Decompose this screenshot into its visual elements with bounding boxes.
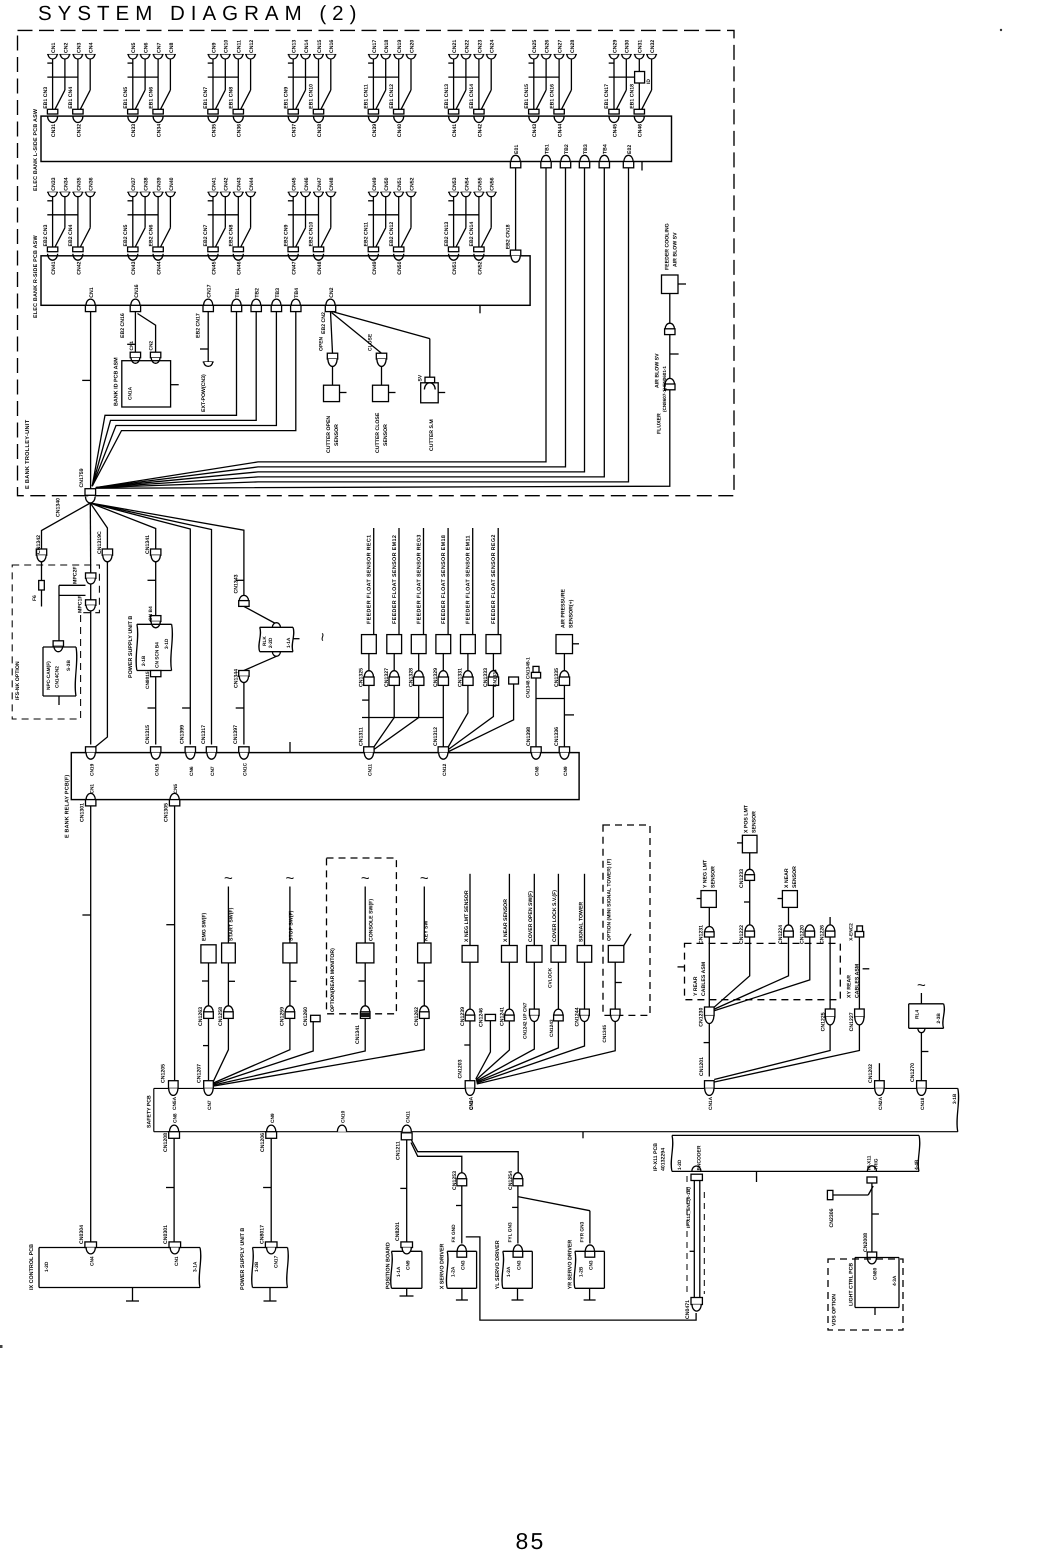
svg-text:FEEDER COOLING: FEEDER COOLING (665, 223, 671, 270)
svg-text:LIGHT CTRL PCB: LIGHT CTRL PCB (848, 1263, 854, 1306)
svg-text:CN29: CN29 (612, 40, 618, 53)
svg-text:CN8201: CN8201 (395, 1222, 401, 1241)
svg-text:EB1 CN8: EB1 CN8 (229, 87, 235, 109)
svg-text:1-2B: 1-2B (254, 1261, 260, 1272)
svg-text:CN1328: CN1328 (409, 668, 415, 687)
svg-text:CN19: CN19 (397, 40, 403, 53)
svg-text:CN12: CN12 (442, 763, 448, 776)
svg-text:CN1341: CN1341 (145, 535, 151, 554)
svg-text:CN18: CN18 (384, 40, 390, 53)
svg-text:CN34: CN34 (63, 177, 69, 190)
svg-text:CN8: CN8 (173, 1113, 179, 1123)
svg-text:EB1 CN14: EB1 CN14 (469, 84, 475, 109)
svg-text:EB2 CN11: EB2 CN11 (364, 222, 370, 247)
svg-text:TB4: TB4 (603, 144, 609, 154)
svg-text:START SW(F): START SW(F) (229, 907, 235, 941)
svg-text:CN1220: CN1220 (799, 925, 805, 944)
svg-text:CN1311: CN1311 (359, 727, 365, 746)
svg-text:CN1231: CN1231 (699, 925, 705, 944)
svg-text:SYSTEM DIAGRAM (2): SYSTEM DIAGRAM (2) (38, 2, 362, 25)
svg-text:EB1 CN17: EB1 CN17 (604, 84, 610, 109)
svg-text:1-2D: 1-2D (677, 1159, 683, 1170)
svg-text:RL4: RL4 (915, 1010, 921, 1019)
svg-text:CN56: CN56 (490, 177, 496, 190)
svg-text:CN52: CN52 (409, 177, 415, 190)
svg-text:CN54: CN54 (464, 177, 470, 190)
svg-text:CN33: CN33 (131, 124, 137, 137)
svg-text:MPC2F: MPC2F (73, 566, 79, 584)
svg-text:CN20: CN20 (409, 40, 415, 53)
svg-text:CN1201: CN1201 (699, 1057, 705, 1076)
svg-text:CN49: CN49 (372, 177, 378, 190)
svg-text:CN46: CN46 (638, 124, 644, 137)
svg-text:EB1 CN18: EB1 CN18 (630, 84, 636, 109)
svg-text:XY REAR: XY REAR (847, 975, 853, 998)
svg-text:TB1: TB1 (544, 144, 550, 154)
svg-text:CN43: CN43 (131, 261, 137, 274)
svg-text:4-3A: 4-3A (892, 1275, 898, 1286)
svg-text:CN1241: CN1241 (499, 1007, 505, 1026)
svg-text:~: ~ (315, 632, 332, 641)
svg-text:CN1327: CN1327 (384, 668, 390, 687)
svg-text:SENSOR(+): SENSOR(+) (569, 599, 575, 628)
svg-text:CN43: CN43 (532, 124, 538, 137)
svg-text:CN1305: CN1305 (164, 803, 170, 822)
svg-text:EB1 CN15: EB1 CN15 (524, 84, 530, 109)
svg-text:NPC-CAM(F): NPC-CAM(F) (46, 661, 52, 690)
svg-text:CN1262: CN1262 (414, 1007, 420, 1026)
svg-text:CN3: CN3 (460, 1260, 466, 1270)
svg-text:CN11: CN11 (368, 764, 374, 776)
svg-text:SENSOR: SENSOR (711, 866, 717, 888)
svg-text:ON B4: ON B4 (148, 606, 154, 621)
svg-text:CN47: CN47 (292, 261, 298, 274)
svg-text:EB1 CN10: EB1 CN10 (309, 84, 315, 109)
svg-text:CN1397: CN1397 (233, 725, 239, 744)
svg-text:FEEDER FLOAT SENSOR EM18: FEEDER FLOAT SENSOR EM18 (441, 535, 447, 624)
svg-text:CN1208: CN1208 (163, 1133, 169, 1152)
svg-text:CN42: CN42 (76, 261, 82, 274)
svg-text:FEEDER FLOAT SENSOR REC1: FEEDER FLOAT SENSOR REC1 (367, 535, 373, 624)
svg-text:SENSOR: SENSOR (383, 424, 389, 446)
svg-text:1-1A: 1-1A (286, 637, 292, 648)
svg-text:POWER SUPPLY UNIT B: POWER SUPPLY UNIT B (240, 1228, 246, 1290)
svg-text:KEY SW: KEY SW (423, 921, 429, 941)
svg-text:SV: SV (418, 374, 424, 381)
svg-text:CN1239: CN1239 (460, 1007, 466, 1026)
svg-text:CABLES ASM: CABLES ASM (855, 964, 861, 998)
svg-text:CN52: CN52 (477, 261, 483, 274)
svg-text:EB1 CN11: EB1 CN11 (364, 84, 370, 109)
svg-text:CN17: CN17 (372, 40, 378, 53)
svg-text:CN1C: CN1C (243, 762, 249, 776)
svg-text:4-4B: 4-4B (914, 1159, 920, 1170)
svg-text:CN1203: CN1203 (458, 1059, 464, 1078)
svg-text:EB2 CN8: EB2 CN8 (229, 224, 235, 246)
svg-text:CN11: CN11 (405, 1111, 411, 1123)
svg-text:CN1253: CN1253 (452, 1171, 458, 1190)
svg-text:CN1: CN1 (89, 784, 95, 794)
svg-text:2-3B: 2-3B (936, 1013, 942, 1024)
svg-text:CN35: CN35 (211, 124, 217, 137)
svg-text:CN1222: CN1222 (739, 925, 745, 944)
svg-text:CN1246: CN1246 (478, 1008, 484, 1027)
svg-text:CN15: CN15 (317, 40, 323, 53)
svg-text:CN0304: CN0304 (79, 1225, 85, 1244)
svg-text:CN1: CN1 (174, 1256, 180, 1266)
svg-text:EB1 CN6: EB1 CN6 (148, 87, 154, 109)
svg-text:EB1 CN13: EB1 CN13 (444, 84, 450, 109)
svg-text:SENSOR: SENSOR (334, 424, 340, 446)
svg-text:CN1312: CN1312 (433, 727, 439, 746)
svg-text:~: ~ (361, 870, 370, 887)
svg-text:CN1340: CN1340 (56, 498, 62, 517)
svg-text:CN4: CN4 (89, 43, 95, 53)
svg-text:EB2 CN5: EB2 CN5 (123, 224, 129, 246)
svg-text:VDS OPTION: VDS OPTION (832, 1294, 838, 1326)
svg-text:CN8017: CN8017 (260, 1225, 266, 1244)
svg-text:YL SERVO DRIVER: YL SERVO DRIVER (495, 1240, 501, 1289)
svg-text:CN31: CN31 (51, 124, 57, 137)
svg-text:1-2D: 1-2D (44, 1261, 50, 1272)
svg-text:CN33: CN33 (51, 177, 57, 190)
svg-text:1-1A: 1-1A (396, 1266, 402, 1277)
svg-text:CN1334: CN1334 (492, 669, 498, 687)
svg-text:CN1211: CN1211 (396, 1141, 402, 1160)
svg-text:CN1336: CN1336 (554, 727, 560, 746)
svg-text:Y REAR: Y REAR (693, 976, 699, 996)
svg-text:CN32: CN32 (76, 124, 82, 137)
svg-text:CN39: CN39 (372, 124, 378, 137)
svg-text:IP-X11_ENC(0-1B): IP-X11_ENC(0-1B) (686, 1187, 692, 1228)
svg-text:COVER OPEN SW(F): COVER OPEN SW(F) (528, 891, 534, 942)
svg-text:CN25: CN25 (532, 40, 538, 53)
svg-text:CN1263: CN1263 (198, 1007, 204, 1026)
svg-text:POWER SUPPLY UNIT B: POWER SUPPLY UNIT B (128, 616, 134, 678)
svg-text:CN14CN2: CN14CN2 (55, 666, 61, 688)
svg-text:CN23: CN23 (477, 40, 483, 53)
svg-text:IFS-NK OPTION: IFS-NK OPTION (15, 661, 21, 700)
svg-text:CN1227: CN1227 (849, 1012, 855, 1031)
svg-text:CN2: CN2 (329, 287, 335, 297)
svg-text:CN45: CN45 (292, 177, 298, 190)
svg-text:CONSOLE SW(F): CONSOLE SW(F) (369, 899, 375, 941)
svg-text:EB1 CN12: EB1 CN12 (389, 84, 395, 109)
svg-text:YR SERVO DRIVER: YR SERVO DRIVER (567, 1240, 573, 1290)
svg-text:CN1260: CN1260 (303, 1007, 309, 1026)
svg-text:CN3: CN3 (76, 43, 82, 53)
svg-text:TB2: TB2 (255, 288, 261, 298)
svg-text:IX CONTROL PCB: IX CONTROL PCB (29, 1244, 35, 1290)
svg-text:EB2 CN18: EB2 CN18 (506, 224, 512, 249)
svg-text:EB2 CN6: EB2 CN6 (148, 224, 154, 246)
svg-text:CN9: CN9 (270, 1113, 276, 1123)
svg-text:CN36: CN36 (237, 124, 243, 137)
svg-text:CN48: CN48 (329, 177, 335, 190)
svg-text:TB1: TB1 (235, 288, 241, 298)
svg-text:3-1D: 3-1D (164, 638, 170, 649)
svg-text:FYL GN3: FYL GN3 (507, 1222, 513, 1243)
svg-text:EB1 CN3: EB1 CN3 (43, 87, 49, 109)
svg-text:CN18: CN18 (920, 1097, 926, 1110)
svg-text:CN1243: CN1243 (549, 1019, 555, 1037)
svg-text:TB3: TB3 (275, 288, 281, 298)
svg-text:CN30: CN30 (625, 40, 631, 53)
svg-text:CN45: CN45 (211, 261, 217, 274)
svg-text:FEEDER FLOAT SENSOR EM12: FEEDER FLOAT SENSOR EM12 (392, 535, 398, 624)
svg-text:CN1331: CN1331 (458, 668, 464, 687)
svg-text:CN32: CN32 (650, 40, 656, 53)
svg-text:AIR BLOW SV: AIR BLOW SV (655, 353, 661, 388)
svg-text:CN5: CN5 (131, 43, 137, 53)
svg-text:CN17: CN17 (207, 284, 213, 297)
svg-text:CN1202: CN1202 (868, 1064, 874, 1083)
svg-text:CVLOCK: CVLOCK (548, 967, 554, 988)
svg-text:CN34: CN34 (157, 124, 163, 137)
svg-text:CUTTER OPEN: CUTTER OPEN (326, 416, 332, 453)
svg-text:CABLES ASM: CABLES ASM (701, 962, 707, 996)
svg-text:CN2: CN2 (149, 341, 155, 351)
svg-text:CN51: CN51 (397, 177, 403, 190)
svg-text:CN7: CN7 (207, 1100, 213, 1110)
svg-text:CN53: CN53 (452, 177, 458, 190)
svg-text:CN9: CN9 (406, 1260, 412, 1270)
svg-text:CN7: CN7 (210, 766, 216, 776)
svg-text:EB2 CN9: EB2 CN9 (283, 224, 289, 246)
svg-text:CN1341: CN1341 (355, 1025, 361, 1044)
svg-text:CN2A: CN2A (878, 1096, 884, 1110)
svg-text:CN41: CN41 (452, 124, 458, 137)
svg-text:CN3A: CN3A (469, 1096, 475, 1110)
svg-text:CN41: CN41 (51, 261, 57, 274)
svg-text:CN31: CN31 (638, 40, 644, 53)
svg-text:EB2 CN7: EB2 CN7 (203, 224, 209, 246)
svg-text:1-2B: 1-2B (578, 1266, 584, 1277)
svg-text:CN13: CN13 (292, 40, 298, 53)
svg-text:TB3: TB3 (583, 144, 589, 154)
svg-text:CN10: CN10 (224, 40, 230, 53)
svg-text:CN1333: CN1333 (483, 668, 489, 687)
svg-text:EB1 CN7: EB1 CN7 (203, 87, 209, 109)
svg-text:ELEC BANK L-SIDE PCB ASW: ELEC BANK L-SIDE PCB ASW (33, 108, 39, 191)
svg-text:CN55: CN55 (477, 177, 483, 190)
svg-text:CUTTER CLOSE: CUTTER CLOSE (375, 412, 381, 453)
svg-text:SENSOR: SENSOR (752, 811, 758, 833)
svg-text:EB2 CN10: EB2 CN10 (309, 222, 315, 247)
svg-text:CN1224: CN1224 (778, 925, 784, 944)
svg-text:2-1B: 2-1B (141, 655, 147, 666)
svg-text:CN1329: CN1329 (433, 668, 439, 687)
svg-text:CN44: CN44 (249, 177, 255, 190)
svg-text:FEEDER FLOAT SENSOR REG2: FEEDER FLOAT SENSOR REG2 (491, 534, 497, 624)
svg-text:3-1B: 3-1B (952, 1093, 958, 1104)
svg-text:IP-X11 PCB: IP-X11 PCB (653, 1143, 659, 1171)
svg-text:~: ~ (917, 977, 926, 994)
svg-text:CN80: CN80 (873, 1267, 879, 1280)
svg-text:Y NEG LMT: Y NEG LMT (703, 859, 709, 888)
svg-text:OPTION(REAR MONITOR): OPTION(REAR MONITOR) (330, 948, 336, 1012)
svg-text:MPC1F: MPC1F (78, 595, 84, 613)
svg-text:CN1399: CN1399 (180, 725, 186, 744)
svg-text:EB1 CN9: EB1 CN9 (283, 87, 289, 109)
svg-text:CN1: CN1 (51, 43, 57, 53)
svg-text:CN1244: CN1244 (575, 1007, 581, 1026)
svg-text:CN SCN B4: CN SCN B4 (155, 642, 161, 668)
svg-text:85: 85 (516, 1528, 546, 1554)
svg-text:ELEC BANK R-SIDE PCB ASW: ELEC BANK R-SIDE PCB ASW (33, 235, 39, 318)
svg-text:CLOSE: CLOSE (368, 333, 374, 351)
svg-text:CN4: CN4 (90, 1256, 96, 1266)
svg-text:FYR GN3: FYR GN3 (579, 1221, 585, 1242)
svg-text:BANK ID PCB ASM: BANK ID PCB ASM (114, 357, 120, 406)
svg-text:CN1301: CN1301 (80, 803, 86, 822)
svg-text:S-3B: S-3B (66, 660, 72, 671)
svg-text:40132294: 40132294 (661, 1148, 667, 1171)
svg-text:2-2D: 2-2D (268, 637, 274, 648)
svg-text:FX GND: FX GND (451, 1224, 457, 1243)
svg-text:EB2 CN13: EB2 CN13 (444, 222, 450, 247)
svg-text:CN2008: CN2008 (863, 1233, 869, 1252)
svg-text:CN24: CN24 (490, 40, 496, 53)
svg-text:EB1 CN4: EB1 CN4 (68, 87, 74, 109)
svg-text:CN1A: CN1A (708, 1096, 714, 1110)
svg-text:CUTTER S.M: CUTTER S.M (429, 419, 435, 451)
svg-text:FEEDER FLOAT SENSOR REG3: FEEDER FLOAT SENSOR REG3 (417, 534, 423, 624)
svg-text:CN3: CN3 (517, 1260, 523, 1270)
svg-text:CN49: CN49 (372, 261, 378, 274)
svg-text:EB1 CN5: EB1 CN5 (123, 87, 129, 109)
svg-text:CN48: CN48 (317, 261, 323, 274)
svg-text:E BANK RELAY PCB(F): E BANK RELAY PCB(F) (65, 775, 71, 838)
svg-text:CN38: CN38 (144, 177, 150, 190)
svg-text:EB2 CN17: EB2 CN17 (196, 313, 202, 338)
svg-text:CN15: CN15 (154, 763, 160, 776)
svg-text:CN1226: CN1226 (820, 925, 826, 944)
svg-text:~: ~ (286, 870, 295, 887)
svg-text:CN16: CN16 (329, 40, 335, 53)
svg-text:CN39: CN39 (157, 177, 163, 190)
svg-text:FEEDER FLOAT SENSOR EM11: FEEDER FLOAT SENSOR EM11 (466, 535, 472, 624)
svg-text:POSITION BOARD: POSITION BOARD (386, 1242, 392, 1289)
svg-text:X POS LMT: X POS LMT (744, 804, 750, 833)
svg-text:CN9: CN9 (211, 43, 217, 53)
svg-text:F6: F6 (32, 595, 38, 601)
svg-text:1-2A: 1-2A (506, 1266, 512, 1277)
svg-text:EXT-POW(CN3): EXT-POW(CN3) (201, 374, 207, 412)
svg-text:EMG SW(F): EMG SW(F) (202, 912, 208, 941)
svg-text:CN5A: CN5A (172, 1096, 178, 1110)
svg-text:CN21: CN21 (452, 40, 458, 53)
svg-text:AIR PRESSURE: AIR PRESSURE (561, 589, 567, 628)
svg-text:EB2 CN16: EB2 CN16 (120, 313, 126, 338)
svg-text:CN1233: CN1233 (739, 869, 745, 888)
svg-text:X-ENC2: X-ENC2 (849, 923, 855, 941)
svg-text:E BANK TROLLEY-UNIT: E BANK TROLLEY-UNIT (25, 419, 31, 489)
svg-text:ID: ID (646, 79, 652, 84)
svg-text:CN44: CN44 (558, 124, 564, 137)
svg-text:CN2306: CN2306 (829, 1208, 835, 1227)
svg-text:TB4: TB4 (294, 288, 300, 298)
svg-text:~: ~ (224, 870, 233, 887)
svg-text:CN1206: CN1206 (260, 1133, 266, 1152)
svg-text:CN6: CN6 (189, 766, 195, 776)
svg-text:(CN8607-1) EN0601-1: (CN8607-1) EN0601-1 (662, 366, 667, 412)
svg-text:CN36: CN36 (89, 177, 95, 190)
svg-text:3-1A: 3-1A (193, 1261, 199, 1272)
svg-text:TRIG: TRIG (874, 1158, 880, 1170)
svg-text:CN44: CN44 (157, 261, 163, 274)
svg-text:CN0301: CN0301 (163, 1225, 169, 1244)
svg-text:CN14: CN14 (304, 40, 310, 53)
svg-text:CN28: CN28 (570, 40, 576, 53)
svg-text:CN1A: CN1A (128, 386, 134, 400)
svg-text:CN11: CN11 (237, 40, 243, 53)
svg-text:CN2: CN2 (63, 43, 69, 53)
svg-text:EB2 CN4: EB2 CN4 (68, 224, 74, 246)
svg-text:1-2A: 1-2A (451, 1266, 457, 1277)
svg-text:SENSOR: SENSOR (792, 866, 798, 888)
svg-text:CN41: CN41 (211, 177, 217, 190)
svg-text:CN46: CN46 (237, 261, 243, 274)
svg-text:RLK: RLK (262, 636, 268, 646)
svg-text:OPEN: OPEN (319, 336, 325, 351)
svg-text:CN1: CN1 (129, 341, 135, 351)
svg-text:CN50: CN50 (397, 261, 403, 274)
svg-text:CN43: CN43 (237, 177, 243, 190)
svg-text:X NEAR SENSOR: X NEAR SENSOR (503, 899, 509, 942)
svg-text:IP-X11: IP-X11 (867, 1155, 873, 1170)
svg-text:EB1 CN16: EB1 CN16 (549, 84, 555, 109)
svg-text:CN8: CN8 (169, 43, 175, 53)
svg-text:CN27: CN27 (558, 40, 564, 53)
svg-text:CN1348 CN1349-1: CN1348 CN1349-1 (526, 657, 532, 698)
svg-text:CN1: CN1 (89, 287, 95, 297)
svg-text:EB2 CN3: EB2 CN3 (43, 224, 49, 246)
svg-text:CN16: CN16 (134, 284, 140, 297)
svg-text:CN3: CN3 (589, 1260, 595, 1270)
svg-text:CN6: CN6 (144, 43, 150, 53)
svg-text:CN46: CN46 (304, 177, 310, 190)
svg-text:CN51: CN51 (452, 261, 458, 274)
svg-text:X SERVO DRIVER: X SERVO DRIVER (440, 1243, 446, 1289)
svg-text:CN9: CN9 (563, 766, 569, 776)
svg-text:EB2 CN14: EB2 CN14 (469, 222, 475, 247)
svg-text:CN26: CN26 (545, 40, 551, 53)
svg-text:CN38: CN38 (317, 124, 323, 137)
svg-text:CN1242 UP CN7: CN1242 UP CN7 (523, 1002, 529, 1039)
svg-text:CN8: CN8 (535, 766, 541, 776)
svg-text:EB2 CN2: EB2 CN2 (321, 312, 327, 334)
svg-text:CN42: CN42 (477, 124, 483, 137)
svg-text:CN1319C: CN1319C (97, 531, 103, 554)
svg-text:CN1342: CN1342 (36, 535, 42, 554)
svg-text:CN1398: CN1398 (526, 727, 532, 746)
svg-text:CN37: CN37 (292, 124, 298, 137)
svg-text:CN1230: CN1230 (698, 1008, 704, 1027)
svg-text:CN10: CN10 (341, 1110, 347, 1123)
svg-text:CN35: CN35 (76, 177, 82, 190)
svg-text:CN1259: CN1259 (280, 1007, 286, 1026)
svg-text:EB2 CN12: EB2 CN12 (389, 222, 395, 247)
svg-text:CN1335: CN1335 (554, 668, 560, 687)
svg-text:STOP SW(F): STOP SW(F) (288, 910, 294, 941)
svg-text:FLUXER: FLUXER (657, 413, 663, 434)
svg-text:CN45: CN45 (612, 124, 618, 137)
svg-text:AIR BLOW SV: AIR BLOW SV (673, 232, 679, 267)
svg-text:E01: E01 (514, 145, 520, 154)
svg-text:CN1343: CN1343 (234, 574, 240, 593)
svg-text:E02: E02 (627, 145, 633, 154)
